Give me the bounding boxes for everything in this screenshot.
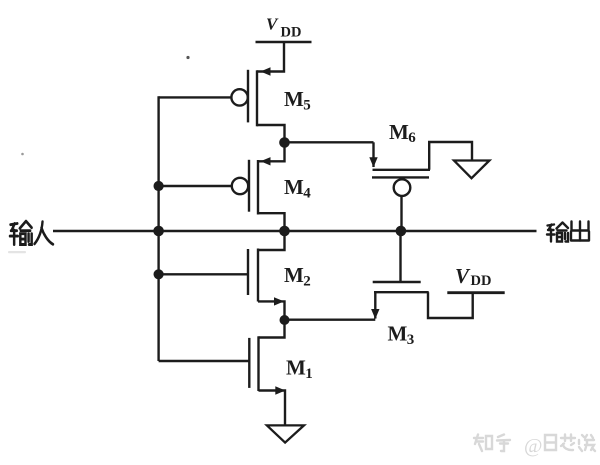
arrow M1 source (275, 386, 285, 394)
wire node B to M3 (285, 319, 376, 321)
transistor M6 channel bar (373, 169, 431, 171)
wire M6 source lead (372, 142, 374, 167)
wire M5 drain to node A (257, 125, 285, 142)
wire M3 source lead (374, 292, 376, 318)
svg-text:V: V (266, 15, 279, 34)
arrow M3 source (371, 309, 379, 319)
wire input bus M2 gate (159, 273, 248, 275)
arrow M2 source (274, 297, 284, 305)
arrow M5 source (261, 67, 271, 75)
wire left input bus vertical (157, 96, 159, 361)
transistor M2 gate bar (247, 249, 249, 295)
transistor M6 gate bar (372, 176, 429, 178)
svg-text:5: 5 (303, 98, 311, 114)
wire input bus M5 gate (159, 96, 232, 98)
label output 输出 (547, 222, 589, 242)
transistor M1 channel bar (257, 336, 259, 391)
transistor M5 channel bar (256, 70, 258, 126)
svg-text:1: 1 (305, 366, 313, 382)
wire M4 drain to output node (258, 213, 285, 231)
node dot A (M5/M4/M6) (279, 137, 290, 148)
ground symbol M6 (454, 161, 489, 179)
transistor M3 gate bar (373, 281, 421, 283)
transistor M3 channel bar (374, 291, 429, 293)
wire M6 drain to ground (429, 142, 472, 170)
transistor M4 channel bar (257, 160, 259, 215)
wire main input line (53, 230, 159, 232)
transistor M5 gate bubble (231, 89, 247, 105)
node dot input junction (153, 226, 164, 237)
node dot M4 gate (154, 181, 164, 191)
transistor M1 gate bar (248, 338, 250, 388)
node dot output (M4/M2) (279, 226, 290, 237)
svg-text:@: @ (524, 435, 542, 457)
VDD rail right bar (447, 291, 504, 294)
wire M3 drain to VDD (428, 292, 473, 318)
wire main output line (159, 230, 537, 232)
speckle dot (186, 56, 189, 59)
wire node A to M4 source (258, 142, 285, 161)
transistor M5 gate bar (247, 70, 249, 123)
label input 输入 (10, 221, 53, 244)
wire VDD to M5 source (257, 42, 284, 72)
wire M2 source to node B (258, 301, 285, 320)
svg-text:V: V (455, 264, 471, 288)
svg-text:DD: DD (281, 25, 302, 41)
wire M1 source to ground (259, 391, 286, 426)
wire M6 gate to output line (400, 196, 402, 231)
svg-text:M: M (286, 356, 306, 380)
node dot B (M2/M1/M3) (280, 315, 290, 325)
arrow M6 source (369, 157, 377, 167)
arrow M4 source (261, 157, 271, 165)
speckle smudge (8, 251, 26, 253)
svg-text:M: M (389, 120, 409, 144)
wire input bus M4 gate (159, 185, 232, 187)
transistor M2 channel bar (257, 249, 259, 302)
speckle dot 2 (21, 153, 24, 156)
svg-text:3: 3 (407, 332, 415, 348)
wire input bus M1 gate (159, 360, 250, 362)
transistor M4 gate bar (248, 160, 250, 212)
wire node A to M6 (285, 141, 374, 143)
svg-text:6: 6 (408, 130, 416, 146)
wire output node to M2 drain (258, 231, 285, 250)
VDD rail top bar (256, 41, 312, 44)
svg-text:DD: DD (471, 273, 492, 289)
svg-text:2: 2 (303, 273, 311, 289)
node dot output line (M6/M3 gates) (396, 226, 407, 237)
ground symbol M1 (267, 425, 304, 442)
wire node B to M1 drain (259, 320, 285, 338)
svg-text:M: M (284, 263, 304, 287)
transistor M6 gate bubble (394, 179, 411, 196)
watermark 知乎 @日芯说 (474, 435, 595, 458)
wire output line to M3 gate (399, 231, 401, 282)
svg-text:M: M (284, 175, 304, 199)
svg-text:M: M (284, 87, 304, 111)
transistor M4 gate bubble (232, 178, 248, 194)
node dot M2 gate (154, 269, 164, 279)
svg-text:4: 4 (303, 185, 311, 201)
svg-text:M: M (388, 322, 408, 346)
